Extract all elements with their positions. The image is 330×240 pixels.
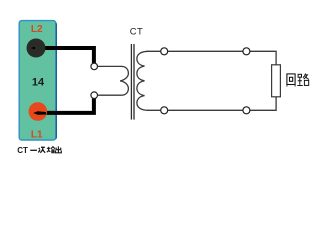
transformer CT core line left <box>130 44 132 120</box>
resistor: secondary burden loop (回路) <box>272 65 281 97</box>
label 路 <box>297 74 309 86</box>
terminal L1 (orange socket) <box>29 102 48 121</box>
node: secondary bottom terminal 2 <box>243 107 250 114</box>
transformer CT core line right <box>133 44 135 120</box>
wire: secondary top to burden resistor <box>147 51 276 65</box>
svg-text:L1: L1 <box>31 130 43 141</box>
wire: terminal L1 to primary bottom node <box>38 98 94 113</box>
wire: terminal L2 to primary top node <box>36 48 94 63</box>
label 回 <box>286 74 296 86</box>
node: primary top terminal <box>91 63 98 70</box>
node: secondary top terminal 1 <box>161 48 168 55</box>
terminal L2 (black socket) <box>27 39 46 58</box>
panel: tester "CT 一次输出" output terminals <box>19 21 56 140</box>
svg-text:CT: CT <box>17 146 28 155</box>
svg-text:L2: L2 <box>31 24 43 35</box>
svg-text:14: 14 <box>32 77 45 89</box>
出 <box>56 146 62 152</box>
node: primary bottom terminal <box>91 92 98 99</box>
transformer CT secondary winding (4 loops) <box>137 51 149 110</box>
一 <box>30 149 37 151</box>
svg-text:CT: CT <box>130 26 144 37</box>
transformer CT primary winding (2 loops) <box>98 66 129 95</box>
wire: secondary bottom to burden resistor <box>147 97 276 111</box>
次 <box>38 147 45 152</box>
node: secondary bottom terminal 1 <box>161 107 168 114</box>
输 <box>47 147 55 153</box>
node: secondary top terminal 2 <box>243 48 250 55</box>
